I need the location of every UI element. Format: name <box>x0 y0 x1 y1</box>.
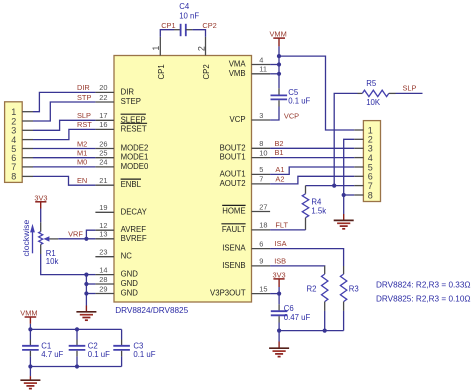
wire pot bottom to GND <box>41 254 87 275</box>
pin 26 MODE2 <box>95 139 148 152</box>
capacitor C2 bottom lead <box>76 351 78 357</box>
capacitor C4 left lead <box>174 29 181 31</box>
svg-text:0.1 uF: 0.1 uF <box>288 97 310 106</box>
capacitor C3 bottom lead <box>121 351 123 357</box>
svg-text:VMA: VMA <box>229 60 247 69</box>
junction VMM bus C2 <box>75 327 79 331</box>
svg-text:CP1: CP1 <box>157 64 166 79</box>
svg-text:DRV8825: R2,R3 = 0.10Ω: DRV8825: R2,R3 = 0.10Ω <box>376 295 471 304</box>
svg-text:8: 8 <box>259 139 263 148</box>
power symbol 3V3 (pot) <box>34 193 47 208</box>
J2 pin 3 <box>354 144 373 154</box>
svg-text:4.7 uF: 4.7 uF <box>41 350 63 359</box>
wire C3 riser <box>121 329 123 339</box>
IC part name label <box>115 306 188 315</box>
resistor R2 zigzag <box>322 274 328 302</box>
J2 pin 6 <box>354 172 373 182</box>
svg-text:R5: R5 <box>366 79 377 88</box>
svg-text:DRV8824/DRV8825: DRV8824/DRV8825 <box>115 306 188 315</box>
junction VMA <box>277 62 281 66</box>
svg-text:7: 7 <box>11 162 16 172</box>
wire 3V3 to pot <box>40 209 42 223</box>
svg-text:DIR: DIR <box>121 87 135 96</box>
J2 pin 2 <box>354 135 373 145</box>
junction gnd bus C2 <box>75 364 79 368</box>
ground (IC GND pins) <box>76 306 96 321</box>
wire V3P3OUT to C6 <box>278 294 280 305</box>
svg-text:STP: STP <box>77 93 91 102</box>
wire B1 net <box>270 157 354 159</box>
label C1 <box>41 341 51 350</box>
label C4 <box>179 2 190 11</box>
wire C3 bottom net <box>121 356 123 366</box>
wire C5 to VCP <box>270 107 279 121</box>
wire R2 to bus <box>324 311 326 331</box>
node label FLT <box>275 221 288 230</box>
svg-text:10: 10 <box>259 148 267 157</box>
svg-text:0.47 uF: 0.47 uF <box>284 313 311 322</box>
pin 19 DECAY <box>95 203 147 216</box>
svg-text:BOUT1: BOUT1 <box>220 153 246 162</box>
J2 pin 5 <box>354 162 373 172</box>
wire R3 to bus <box>343 311 345 331</box>
label R3 <box>349 285 359 294</box>
label R1 <box>46 249 56 258</box>
pin 20 DIR <box>95 83 134 96</box>
wire header row8 <box>344 194 355 196</box>
svg-text:19: 19 <box>99 203 107 212</box>
node label A1 <box>275 165 284 174</box>
wire VMB net <box>270 73 279 75</box>
svg-text:18: 18 <box>259 221 267 230</box>
pin 13 BVREF <box>95 230 146 243</box>
svg-text:25: 25 <box>99 149 107 158</box>
wire STP net <box>33 102 95 121</box>
wire SLP net (right) <box>396 92 423 94</box>
wire VMM down to C5 <box>278 56 280 88</box>
svg-text:10K: 10K <box>366 98 381 107</box>
wire C2 top lead net <box>76 329 78 339</box>
svg-text:AOUT1: AOUT1 <box>220 169 246 178</box>
J1 pin 3 <box>11 126 33 136</box>
junction VRF <box>84 237 88 241</box>
J2 pin 7 <box>354 181 373 191</box>
svg-text:C6: C6 <box>284 304 294 313</box>
pin 6 ISENA <box>222 239 270 252</box>
svg-text:VCP: VCP <box>230 115 246 124</box>
wire GND28 net <box>86 283 95 285</box>
resistor R5 right lead <box>389 92 396 94</box>
resistor R5 left lead <box>358 92 363 94</box>
clockwise arrow <box>30 224 35 254</box>
J1 pin 1 <box>11 107 33 117</box>
label R2 <box>307 285 317 294</box>
svg-text:14: 14 <box>99 265 107 274</box>
junction R2 bus <box>323 329 327 333</box>
potentiometer R1 wiper arrow <box>43 236 58 241</box>
potentiometer R1 zigzag <box>39 232 43 245</box>
wire B2 net <box>270 147 354 149</box>
svg-text:10k: 10k <box>46 257 59 266</box>
node label A2 <box>275 175 284 184</box>
node label VRF <box>68 230 83 239</box>
pin 8 BOUT2 <box>220 139 271 152</box>
svg-text:15: 15 <box>259 284 267 293</box>
svg-text:R3: R3 <box>349 285 359 294</box>
wire C6 to bus <box>278 323 280 331</box>
node label RST <box>77 120 92 129</box>
svg-text:clockwise: clockwise <box>21 220 31 257</box>
power symbol 3V3 (V3P3OUT) <box>273 271 286 288</box>
svg-text:C4: C4 <box>179 2 190 11</box>
wire bottom gnd stem <box>29 367 31 377</box>
node label CP1 <box>161 21 175 30</box>
svg-text:SLP: SLP <box>77 111 91 120</box>
svg-text:HOME: HOME <box>222 207 245 216</box>
node label M0 <box>77 158 87 167</box>
pin 11 VMB <box>229 65 270 78</box>
annotation DRV8824 values <box>376 281 471 290</box>
ground (right header) <box>334 214 354 229</box>
pin 25 MODE1 <box>95 149 148 162</box>
op-amp U1 DRV8824/DRV8825 driver IC body <box>114 56 252 303</box>
resistor R2 bottom lead <box>324 302 326 311</box>
wire GND29 net <box>86 293 95 295</box>
svg-text:B1: B1 <box>275 148 284 157</box>
wire CP1 to C4 <box>160 30 174 37</box>
svg-text:VMB: VMB <box>229 69 246 78</box>
wire M0 net <box>33 166 95 168</box>
wire bus GND stem <box>278 331 280 342</box>
svg-text:0.1 uF: 0.1 uF <box>88 350 110 359</box>
svg-text:R4: R4 <box>311 198 322 207</box>
wire VRF net <box>58 238 95 240</box>
label C2 <box>88 341 98 350</box>
wire VMM cap bus bottom <box>30 366 121 368</box>
wire 3V3 stem to V3P3OUT <box>278 287 280 294</box>
capacitor C4 plates <box>181 24 186 36</box>
svg-text:M0: M0 <box>77 158 87 167</box>
label C5 <box>288 88 299 97</box>
label R5 <box>366 79 377 88</box>
label C2 value 0.1 uF <box>88 350 110 359</box>
capacitor C6 bottom lead <box>278 316 280 322</box>
junction V3P3OUT <box>277 292 281 296</box>
capacitor C3 top lead <box>121 340 123 346</box>
svg-text:2: 2 <box>196 46 206 51</box>
junction VMB <box>277 72 281 76</box>
pin 29 GND <box>95 284 138 297</box>
svg-text:13: 13 <box>99 230 107 239</box>
junction GND14 <box>84 273 88 277</box>
svg-text:3V3: 3V3 <box>34 193 47 202</box>
svg-text:CP2: CP2 <box>202 64 211 79</box>
label C6 <box>284 304 294 313</box>
pin 3 VCP <box>230 111 271 124</box>
node label DIR <box>77 83 90 92</box>
resistor R5 zigzag <box>362 90 388 96</box>
junction gnd bus C1 <box>28 364 32 368</box>
J1 pin 7 <box>11 162 33 172</box>
svg-text:26: 26 <box>99 139 107 148</box>
svg-text:GND: GND <box>121 289 139 298</box>
node label SLP <box>77 111 91 120</box>
J1 pin 2 <box>11 116 33 126</box>
svg-text:B2: B2 <box>275 139 284 148</box>
ground (bottom left) <box>20 376 40 389</box>
svg-text:ISENA: ISENA <box>222 244 246 253</box>
svg-text:7: 7 <box>259 175 263 184</box>
svg-text:5: 5 <box>259 165 263 174</box>
node label M1 <box>77 149 87 158</box>
svg-text:29: 29 <box>99 284 107 293</box>
label C4 value 10 nF <box>179 11 199 20</box>
svg-text:SLP: SLP <box>403 83 417 92</box>
wire M1 net <box>33 157 95 159</box>
wire ISB net <box>270 265 325 267</box>
J2 pin 1 <box>354 125 373 135</box>
svg-text:M1: M1 <box>77 149 87 158</box>
label C3 value 0.1 uF <box>133 350 155 359</box>
label C5 value 0.1 uF <box>288 97 310 106</box>
wire header GND stem <box>343 195 345 214</box>
pin 15 V3P3OUT <box>210 284 270 297</box>
svg-text:8: 8 <box>368 190 373 200</box>
resistor R4 zigzag <box>302 194 308 218</box>
capacitor C6 top lead <box>278 304 280 310</box>
pin 9 ISENB <box>222 257 270 270</box>
pin 28 GND <box>95 275 138 288</box>
svg-text:20: 20 <box>99 83 107 92</box>
pin 27 HOME <box>222 202 270 215</box>
wire DIR net <box>33 92 95 111</box>
label C1 value 4.7 uF <box>41 350 63 359</box>
wire SLP net <box>33 120 95 130</box>
node label B1 <box>275 148 284 157</box>
power symbol VMM (bottom) <box>20 309 37 324</box>
svg-text:A1: A1 <box>275 165 284 174</box>
pin 23 NC <box>95 248 132 261</box>
svg-text:27: 27 <box>259 202 267 211</box>
resistor R4 bottom lead <box>305 218 307 230</box>
svg-text:24: 24 <box>99 158 107 167</box>
wire VMM stem <box>278 46 280 56</box>
svg-text:CP2: CP2 <box>202 21 216 30</box>
svg-text:C1: C1 <box>41 341 51 350</box>
capacitor C6 plates <box>271 311 288 315</box>
svg-text:ISENB: ISENB <box>222 261 245 270</box>
wire C1 bottom net <box>29 356 31 366</box>
annotation DRV8825 values <box>376 295 471 304</box>
capacitor C1 top lead <box>29 340 31 346</box>
pin 7 AOUT2 <box>220 175 271 188</box>
capacitor C2 top lead <box>76 340 78 346</box>
resistor R4 top lead <box>305 186 307 194</box>
pin 22 STEP <box>95 93 141 106</box>
wire header row7 / R4 top <box>306 185 355 187</box>
pin 4 VMA <box>229 55 270 68</box>
svg-text:CP1: CP1 <box>161 21 175 30</box>
wire RST net <box>33 129 95 139</box>
node label VCP <box>284 111 299 120</box>
svg-text:STEP: STEP <box>121 97 141 106</box>
svg-text:1: 1 <box>151 46 161 51</box>
svg-text:17: 17 <box>99 111 107 120</box>
svg-text:4: 4 <box>259 55 263 64</box>
label R4 value 1.5k <box>311 207 326 216</box>
svg-text:BVREF: BVREF <box>121 234 147 243</box>
pin 21 ENBL <box>95 176 141 189</box>
wire R5 left net <box>334 93 357 185</box>
svg-text:GND: GND <box>121 279 139 288</box>
junction R4/R5/header7 <box>332 184 336 188</box>
ground (C6) <box>269 342 289 357</box>
J2 pin 8 <box>354 190 373 200</box>
node label M2 <box>77 139 87 148</box>
svg-text:22: 22 <box>99 93 107 102</box>
svg-text:FLT: FLT <box>275 221 288 230</box>
capacitor C5 bottom lead <box>278 100 280 106</box>
pin 17 SLEEP <box>95 111 145 124</box>
node label EN <box>77 176 87 185</box>
label R5 value 10K <box>366 98 381 107</box>
svg-text:3: 3 <box>259 111 263 120</box>
pin 1 CP1 <box>151 37 166 80</box>
svg-text:FAULT: FAULT <box>222 225 246 234</box>
svg-text:C3: C3 <box>133 341 143 350</box>
connector J1 left header body <box>5 102 23 183</box>
svg-text:BOUT2: BOUT2 <box>220 143 246 152</box>
svg-text:R2: R2 <box>307 285 317 294</box>
J1 pin 4 <box>11 135 33 145</box>
pin 2 CP2 <box>196 37 211 80</box>
svg-text:RST: RST <box>77 120 92 129</box>
wire GND vertical <box>85 275 87 306</box>
wire VMM cap bus top <box>30 328 121 330</box>
svg-text:MODE2: MODE2 <box>121 144 149 153</box>
node label STP <box>77 93 91 102</box>
wire VMA net <box>270 64 279 66</box>
node label CP2 <box>202 21 216 30</box>
svg-text:DECAY: DECAY <box>121 207 148 216</box>
resistor R2 top lead <box>324 266 326 274</box>
svg-text:A2: A2 <box>275 175 284 184</box>
potentiometer R1 bottom lead <box>40 244 42 254</box>
pin 16 RESET <box>95 120 147 133</box>
wire sense bus <box>279 330 344 332</box>
svg-text:DRV8824: R2,R3 = 0.33Ω: DRV8824: R2,R3 = 0.33Ω <box>376 281 471 290</box>
pin 24 MODE0 <box>95 158 149 171</box>
svg-text:GND: GND <box>121 270 139 279</box>
resistor R3 bottom lead <box>343 302 345 311</box>
node label SLP (right) <box>403 83 417 92</box>
wire M2 net <box>33 148 95 150</box>
capacitor C2 plates <box>69 346 86 350</box>
pin 10 BOUT1 <box>220 148 271 161</box>
J1 pin 6 <box>11 153 33 163</box>
svg-text:NC: NC <box>121 252 133 261</box>
svg-text:16: 16 <box>99 120 107 129</box>
svg-text:23: 23 <box>99 248 107 257</box>
svg-text:ENBL: ENBL <box>121 180 142 189</box>
junction C6 bus <box>277 329 281 333</box>
pin 14 GND <box>95 265 138 278</box>
wire A2 net <box>270 176 354 184</box>
node label B2 <box>275 139 284 148</box>
junction GND29 <box>84 291 88 295</box>
power symbol VMM (top) <box>270 30 287 47</box>
wire VMM stem (bottom) <box>29 324 31 330</box>
wire EN net <box>33 176 95 185</box>
capacitor C5 plates <box>271 95 288 99</box>
wire AVREF riser <box>86 230 95 239</box>
svg-text:VMM: VMM <box>20 309 37 318</box>
svg-text:DIR: DIR <box>77 83 90 92</box>
svg-text:MODE0: MODE0 <box>121 162 149 171</box>
clockwise text <box>21 220 31 257</box>
capacitor C4 right lead <box>186 29 193 31</box>
label C3 <box>133 341 143 350</box>
wire C4 to CP2 <box>192 30 205 37</box>
J1 pin 5 <box>11 144 33 154</box>
wire ISA net <box>270 249 344 266</box>
wire C2 bottom net <box>76 356 78 366</box>
wire A1 net <box>270 167 354 174</box>
svg-text:EN: EN <box>77 176 87 185</box>
svg-text:V3P3OUT: V3P3OUT <box>210 289 246 298</box>
label R1 value 10k <box>46 257 59 266</box>
capacitor C1 plates <box>22 346 39 350</box>
wire header GND riser <box>344 139 355 195</box>
label R4 <box>311 198 322 207</box>
svg-text:C2: C2 <box>88 341 98 350</box>
svg-text:0.1 uF: 0.1 uF <box>133 350 155 359</box>
svg-text:ISA: ISA <box>275 239 287 248</box>
J2 pin 4 <box>354 153 373 163</box>
svg-text:VCP: VCP <box>284 111 299 120</box>
node label ISA <box>275 239 287 248</box>
svg-text:21: 21 <box>99 176 107 185</box>
svg-text:8: 8 <box>11 172 16 182</box>
capacitor C3 plates <box>113 346 130 350</box>
svg-text:ISB: ISB <box>274 256 286 265</box>
junction VMM node <box>277 54 281 58</box>
resistor R3 top lead <box>343 266 345 274</box>
wire FLT net <box>270 229 305 231</box>
wire C1 top lead net <box>29 329 31 339</box>
svg-text:M2: M2 <box>77 139 87 148</box>
svg-text:RESET: RESET <box>121 124 147 133</box>
capacitor C1 bottom lead <box>29 351 31 357</box>
node label ISB <box>274 256 286 265</box>
connector J2 right header body <box>363 121 380 202</box>
resistor R3 zigzag <box>340 274 346 302</box>
svg-text:6: 6 <box>259 239 263 248</box>
svg-text:10 nF: 10 nF <box>179 11 199 20</box>
wire GND14 net <box>86 274 95 276</box>
svg-text:AOUT2: AOUT2 <box>220 179 246 188</box>
capacitor C5 top lead <box>278 88 280 94</box>
svg-text:MODE1: MODE1 <box>121 153 149 162</box>
svg-text:9: 9 <box>259 257 263 266</box>
pin 5 AOUT1 <box>220 165 271 178</box>
svg-text:28: 28 <box>99 275 107 284</box>
J1 pin 8 <box>11 172 33 182</box>
junction header GND <box>342 193 346 197</box>
svg-text:1.5k: 1.5k <box>311 207 326 216</box>
potentiometer R1 top lead <box>40 222 42 231</box>
pin 18 FAULT <box>221 221 270 234</box>
